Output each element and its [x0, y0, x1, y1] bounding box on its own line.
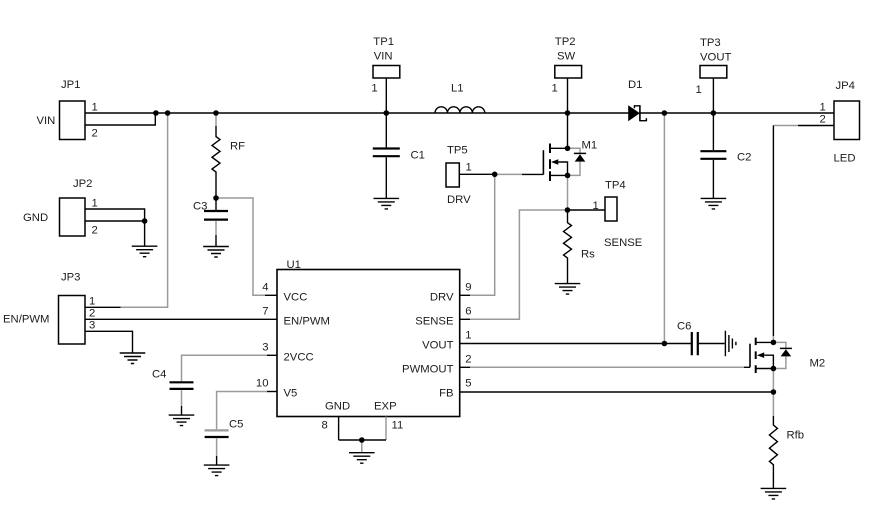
wire U1 EXP stub — [385, 417, 387, 441]
ground Rfb — [761, 488, 787, 499]
svg-text:JP4: JP4 — [836, 80, 855, 92]
node C3/RF junction — [213, 195, 219, 201]
svg-text:1: 1 — [593, 200, 599, 212]
svg-text:TP1: TP1 — [373, 36, 394, 48]
node VOUT junction — [662, 341, 668, 347]
svg-text:DRV: DRV — [447, 194, 471, 206]
svg-text:LED: LED — [834, 153, 856, 165]
svg-text:C3: C3 — [193, 201, 207, 213]
node DRV junction — [492, 172, 498, 178]
wire M2 source to FB — [772, 369, 774, 393]
wire VIN rail left (JP1 pin 1 to D1 anode) — [85, 112, 629, 114]
svg-text:GND: GND — [325, 401, 350, 413]
svg-text:5: 5 — [465, 378, 471, 390]
ground Rs — [555, 284, 581, 295]
capacitor C6 — [677, 321, 725, 356]
svg-text:2: 2 — [92, 225, 98, 237]
node FB junction — [771, 389, 777, 395]
svg-text:1: 1 — [371, 83, 377, 95]
svg-text:FB: FB — [439, 388, 453, 400]
inductor L1 — [435, 83, 485, 114]
svg-text:SENSE: SENSE — [415, 315, 454, 327]
svg-text:C4: C4 — [152, 369, 166, 381]
wire DRV junction to U1 DRV — [470, 174, 495, 295]
connector JP1 — [37, 79, 98, 140]
node M1 drain — [565, 146, 571, 152]
node VIN junction B — [165, 110, 171, 116]
svg-text:C5: C5 — [229, 419, 243, 431]
svg-text:1: 1 — [92, 102, 98, 114]
svg-text:C2: C2 — [737, 152, 751, 164]
svg-text:U1: U1 — [287, 259, 301, 271]
wire VOUT riser — [663, 113, 665, 344]
svg-text:GND: GND — [23, 212, 48, 224]
svg-text:VIN: VIN — [37, 115, 56, 127]
ground C5 — [204, 465, 230, 476]
ground U1 — [349, 453, 375, 464]
capacitor C5 — [205, 419, 244, 466]
wire DRV junction to M1 gate — [495, 173, 522, 175]
resistor RF — [212, 113, 245, 198]
wire VIN to JP3 pin 1 — [121, 113, 168, 307]
node U1 ground — [359, 437, 365, 443]
svg-text:TP5: TP5 — [447, 145, 468, 157]
connector JP3 — [3, 272, 95, 345]
svg-text:6: 6 — [465, 306, 471, 318]
svg-text:Rfb: Rfb — [787, 430, 805, 442]
svg-text:VIN: VIN — [374, 50, 393, 62]
diode D1 — [628, 79, 646, 121]
wire U1 ground stub — [361, 440, 363, 452]
node TP1/C1 — [384, 110, 390, 116]
svg-text:D1: D1 — [628, 79, 642, 91]
wire U1 FB to Rfb — [460, 391, 774, 393]
svg-text:VOUT: VOUT — [422, 340, 453, 352]
wire C3 to U1 VCC — [216, 198, 265, 295]
svg-text:V5: V5 — [284, 388, 298, 400]
svg-text:L1: L1 — [451, 83, 464, 95]
node VIN junction A — [153, 110, 159, 116]
test point TP5 — [446, 145, 472, 207]
test point TP4 — [593, 180, 643, 250]
wire JP3 pin 3 to ground — [85, 331, 133, 353]
svg-text:EN/PWM: EN/PWM — [284, 315, 330, 327]
wire SENSE net to U1 — [470, 210, 568, 319]
svg-text:2: 2 — [89, 308, 95, 320]
node sense junction — [565, 207, 571, 213]
wire JP2 pin 1 — [85, 209, 145, 221]
connector JP4 — [820, 80, 860, 165]
ground C4 — [169, 415, 195, 426]
node RF top — [213, 110, 219, 116]
svg-text:3: 3 — [89, 320, 95, 332]
svg-text:RF: RF — [230, 141, 245, 153]
wire JP2 pin 2 — [85, 220, 145, 222]
wire TP5 to DRV junction — [459, 173, 494, 175]
svg-text:9: 9 — [465, 282, 471, 294]
ground C2 — [701, 198, 727, 209]
svg-text:EN/PWM: EN/PWM — [3, 314, 49, 326]
svg-text:3: 3 — [262, 342, 268, 354]
svg-text:8: 8 — [322, 420, 328, 432]
svg-text:1: 1 — [696, 84, 702, 96]
ground C6 (rotated) — [725, 331, 736, 357]
wire U1 2VCC to C4 — [267, 354, 277, 356]
svg-text:M1: M1 — [582, 140, 598, 152]
svg-text:SW: SW — [557, 50, 576, 62]
svg-text:1: 1 — [552, 83, 558, 95]
wire JP3 pin 2 to U1 EN/PWM — [85, 318, 277, 320]
svg-text:2VCC: 2VCC — [284, 351, 314, 363]
wire U1 PWMOUT to M2 gate — [460, 366, 470, 368]
wire U1 VCC stub — [265, 294, 277, 296]
wire U1 V5 to C5 — [267, 391, 277, 393]
test point TP3 — [696, 37, 732, 96]
wire JP2 to ground — [144, 221, 146, 246]
node M2 source — [771, 366, 777, 372]
svg-text:11: 11 — [392, 420, 404, 432]
test point TP2 — [552, 36, 582, 95]
svg-text:Rs: Rs — [581, 249, 595, 261]
svg-text:1: 1 — [465, 330, 471, 342]
ground C3 — [203, 247, 229, 258]
test point TP1 — [371, 36, 399, 95]
node SW — [565, 110, 571, 116]
svg-text:VOUT: VOUT — [700, 52, 731, 64]
wire U1 DRV stub — [460, 294, 470, 296]
capacitor C2 — [700, 113, 751, 198]
node M1 source — [565, 173, 571, 179]
node D1 cathode junction — [662, 110, 668, 116]
wire JP1 pin 2 — [85, 113, 155, 125]
svg-text:JP2: JP2 — [73, 178, 92, 190]
svg-text:1: 1 — [92, 198, 98, 210]
svg-text:7: 7 — [262, 306, 268, 318]
svg-text:TP3: TP3 — [700, 37, 721, 49]
svg-text:PWMOUT: PWMOUT — [402, 363, 454, 375]
wire U1 SENSE stub — [460, 318, 470, 320]
svg-text:TP2: TP2 — [555, 36, 576, 48]
ground JP3 — [120, 353, 146, 364]
ground JP2 — [132, 246, 158, 257]
wire TP3 to rail — [712, 78, 714, 113]
wire TP2 to rail — [567, 78, 569, 113]
svg-text:1: 1 — [820, 102, 826, 114]
capacitor C3 — [193, 198, 228, 247]
transistor M2 — [750, 338, 825, 373]
connector JP2 — [23, 178, 98, 237]
svg-text:SENSE: SENSE — [604, 237, 643, 249]
svg-text:2: 2 — [820, 114, 826, 126]
wire VIN rail right (D1 cathode to JP4 pin 1) — [640, 112, 834, 114]
wire SW to M1 drain — [567, 113, 569, 148]
svg-text:JP3: JP3 — [61, 272, 80, 284]
resistor Rfb — [769, 392, 804, 488]
wire TP1 to rail — [385, 78, 387, 113]
ground C1 — [374, 198, 400, 209]
svg-text:VCC: VCC — [284, 291, 308, 303]
wire JP4 pin 2 to M2 drain — [798, 125, 834, 127]
svg-text:TP4: TP4 — [605, 180, 626, 192]
svg-text:C1: C1 — [411, 150, 425, 162]
svg-text:2: 2 — [92, 128, 98, 140]
wire sense junction to TP4 — [568, 209, 606, 211]
transistor M1 — [522, 140, 597, 182]
svg-text:DRV: DRV — [430, 291, 454, 303]
capacitor C1 — [373, 113, 425, 198]
svg-text:M2: M2 — [810, 358, 826, 370]
resistor Rs — [564, 210, 596, 284]
svg-text:2: 2 — [465, 354, 471, 366]
wire U1 GND stub — [338, 417, 340, 441]
node TP3/C2 — [711, 110, 717, 116]
svg-text:1: 1 — [466, 162, 472, 174]
svg-text:4: 4 — [262, 282, 268, 294]
node M2 drain — [771, 340, 777, 346]
wire M1 source to sense junction — [567, 175, 569, 210]
svg-text:10: 10 — [256, 377, 269, 389]
svg-text:1: 1 — [89, 296, 95, 308]
svg-text:JP1: JP1 — [61, 79, 80, 91]
wire U1 VOUT to C6 — [460, 343, 691, 345]
IC U1 — [256, 259, 472, 432]
svg-text:C6: C6 — [677, 321, 691, 333]
node JP2 ground junction — [142, 218, 148, 224]
wire JP3 pin 1 stub — [85, 306, 121, 308]
capacitor C4 — [152, 369, 194, 416]
svg-text:EXP: EXP — [374, 401, 397, 413]
wire GND-EXP join — [339, 439, 386, 441]
